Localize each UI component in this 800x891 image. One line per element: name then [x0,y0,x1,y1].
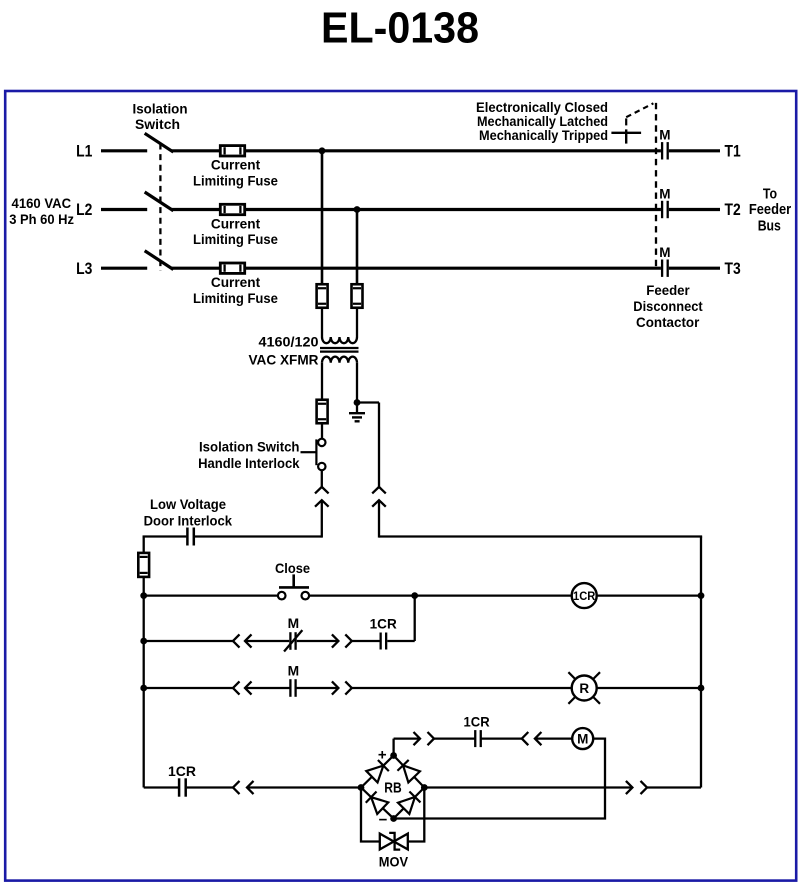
coil M (contactor) [572,728,593,749]
wire ground node to right drop [357,401,379,403]
node junction L2 tap [354,206,361,213]
connector rung4 left pair [414,732,421,745]
wire bridge plus riser [392,739,394,756]
wire rung5 right [424,786,632,788]
wire L1 to contactor [245,149,661,152]
svg-text:L2: L2 [76,201,92,219]
contactor latch symbol [611,132,641,134]
wire L2 stub [101,208,147,211]
wire rung2 mid right [297,640,339,642]
left rail upper [143,537,145,554]
svg-text:Close: Close [275,561,310,576]
node secondary ground junction [354,399,361,406]
control fuse FU3 (secondary) [317,400,328,424]
handle interlock pointer [301,451,317,453]
pushbutton Close [292,574,295,587]
node bridge AC right terminal [421,784,428,791]
svg-text:1CR: 1CR [464,715,490,730]
wire rung3 mid right [296,687,339,689]
wire FU3 to interlock switch [321,423,323,438]
contact M auxiliary NO [289,679,291,697]
door interlock contact [186,528,189,546]
node bridge plus terminal [390,752,397,759]
current limiting fuse F3 [220,263,244,273]
svg-text:Limiting Fuse: Limiting Fuse [193,232,278,247]
varistor MOV [380,834,394,850]
svg-text:M: M [659,245,670,260]
svg-text:Limiting Fuse: Limiting Fuse [193,291,278,306]
connector plug right column [372,487,386,494]
connector plug left column [315,487,329,494]
svg-text:1CR: 1CR [370,616,397,631]
ground symbol [356,403,358,413]
contact 1CR NO (motor rung) [474,730,476,747]
svg-text:Mechanically Latched: Mechanically Latched [477,114,608,129]
svg-text:Feeder: Feeder [749,201,791,218]
wire L2 to contactor [245,208,661,211]
wire rung1 left [144,594,278,596]
wire L3 to fuse [172,267,221,270]
svg-text:M: M [577,731,588,746]
svg-text:M: M [288,616,300,631]
wire MOV branch left [361,788,380,842]
rectifier RB diode D3 (bottom-left) [355,781,399,824]
svg-text:Switch: Switch [135,116,180,132]
coil R (pilot light) [572,676,597,701]
wire tap from L2 [356,210,359,285]
wire rung5 to connector [187,786,233,788]
node rung1 right rail junction [698,592,705,599]
left rail lower [143,577,145,788]
wire right connector to right rail [379,535,702,537]
node rung2 left rail junction [140,638,147,645]
svg-text:Current: Current [211,275,261,290]
wire secondary left leg [321,363,323,400]
svg-text:4160 VAC: 4160 VAC [12,195,72,211]
svg-text:Low Voltage: Low Voltage [150,497,226,512]
wire rung2 left [144,640,233,642]
svg-text:Disconnect: Disconnect [633,298,703,314]
svg-text:+: + [378,747,387,764]
transformer T1 4160/120 primary winding [322,337,357,343]
wire fuse FU1 to transformer [321,308,323,337]
handle interlock switch [318,439,325,446]
transformer T1 secondary winding [322,357,357,363]
wire rung4 mid [482,737,522,739]
svg-text:1CR: 1CR [573,591,596,603]
right rail [700,537,702,788]
wire M coil return [394,739,605,819]
svg-text:4160/120: 4160/120 [259,333,319,349]
latch dashed linkage [625,117,627,126]
wire L1 to fuse [172,149,221,152]
node rung1 left rail junction [140,592,147,599]
wire L2 to fuse [172,208,221,211]
wire MOV branch right [408,788,425,842]
wire top left rung [143,535,187,537]
svg-text:Current: Current [211,216,261,231]
isolation switch mechanical link (dashed) [159,144,161,272]
coil R cross arms [568,672,575,679]
transformer T1 core [320,347,359,349]
svg-text:M: M [659,186,670,201]
connector rung4 right pair [522,732,529,745]
svg-text:Current: Current [211,158,261,173]
wire rung1 right [597,594,701,596]
svg-text:L3: L3 [76,260,92,278]
wire secondary right leg [356,363,358,403]
svg-text:T3: T3 [725,260,741,278]
rectifier RB diode D1 (left-top) [355,750,399,794]
svg-text:T2: T2 [725,201,741,219]
contact 1CR NO [379,633,381,650]
wire to T3 [669,267,720,270]
contact M pole 3 [661,260,663,277]
svg-text:Contactor: Contactor [636,314,700,330]
svg-text:L1: L1 [76,142,92,160]
node bridge AC left terminal [358,784,365,791]
svg-text:M: M [288,664,300,679]
wire branch rung1 to rung2 [414,596,416,641]
wire door interlock to left connector [195,535,322,537]
svg-text:MOV: MOV [379,853,409,869]
control fuse FU1 (primary left) [317,284,328,308]
node rung3 left rail junction [140,685,147,692]
svg-text:To: To [763,185,777,202]
wire to T2 [669,208,720,211]
wire fuse FU2 to transformer [356,308,358,337]
connector rung5 left pair [233,781,240,794]
wire rung5 left [144,786,178,788]
wire rung3 to R coil [352,687,572,689]
node rung1 branch junction [411,592,418,599]
current limiting fuse F1 [220,146,244,156]
wire L3 stub [101,267,147,270]
rectifier RB diode D4 (bottom-right) [387,781,431,825]
svg-text:EL-0138: EL-0138 [321,3,479,52]
contact 1CR NO (bridge rung) [178,778,181,796]
svg-text:Isolation: Isolation [133,101,188,117]
feeder contactor mechanical link (dashed) [655,103,657,268]
wire tap from L1 [321,151,324,284]
wire L3 to contactor [245,267,661,270]
node rung3 right rail junction [698,685,705,692]
connector rung5 right pair [626,781,633,794]
svg-text:−: − [379,811,388,828]
contact M pole 2 [661,201,663,218]
svg-text:Bus: Bus [758,217,781,234]
wire rung3 right [597,687,701,689]
wire interlock switch to connector [321,470,323,486]
svg-text:Limiting Fuse: Limiting Fuse [193,173,278,188]
svg-text:VAC XFMR: VAC XFMR [249,351,319,367]
connector rung3 right pair [332,681,339,694]
svg-text:R: R [579,681,589,696]
isolation switch blade L1 [146,134,172,151]
control fuse FU4 on left rail [138,553,149,577]
coil 1CR [572,583,597,608]
wire rung1 middle [309,594,572,596]
wire to T1 [669,149,720,152]
contact M NC slash [285,631,302,651]
connector rung2 right pair [332,634,339,647]
contact M pole 1 [661,142,663,159]
node bridge minus terminal [390,815,397,822]
svg-text:Handle Interlock: Handle Interlock [198,456,300,471]
svg-text:Feeder: Feeder [646,282,690,298]
wire L1 stub [101,149,147,152]
rectifier RB diode D2 (right-top) [387,749,430,793]
svg-text:3 Ph 60 Hz: 3 Ph 60 Hz [9,211,74,227]
svg-text:M: M [659,128,670,143]
svg-text:1CR: 1CR [168,764,196,779]
wire rung3 left [144,687,233,689]
svg-text:Electronically Closed: Electronically Closed [476,100,608,115]
svg-text:Door Interlock: Door Interlock [144,513,233,528]
contact M auxiliary NC [289,632,291,650]
control fuse FU2 (primary right) [352,284,363,308]
connector rung3 left pair [233,681,240,694]
svg-text:Mechanically Tripped: Mechanically Tripped [479,128,608,143]
svg-text:RB: RB [384,781,401,797]
svg-text:T1: T1 [725,142,741,160]
svg-text:Isolation Switch: Isolation Switch [199,440,300,455]
isolation switch blade L3 [146,252,172,269]
current limiting fuse F2 [220,204,244,214]
node junction L1 tap [319,147,326,154]
isolation switch blade L2 [146,193,172,210]
connector rung2 left pair [233,634,240,647]
